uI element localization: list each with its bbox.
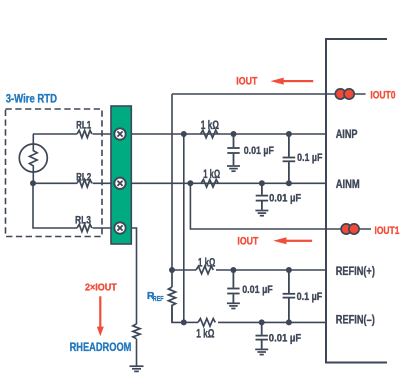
- resistor RL3: [77, 224, 92, 231]
- capacitor C6 0.01uF (REFIN-): [256, 322, 268, 348]
- node RL1/lineB: [181, 131, 187, 137]
- arrow IOUT (lower, pointing left): [273, 237, 312, 244]
- IC U1 outline (ADC): [326, 39, 387, 363]
- wire RREF bottom to REFIN(-) node: [172, 305, 184, 323]
- node REFIN+ cap: [230, 267, 236, 273]
- terminal screw 2: [114, 178, 125, 189]
- node AINM/lineC: [187, 180, 193, 186]
- wire RHEADROOM to ground: [136, 339, 138, 366]
- terminal screw 3: [114, 222, 125, 233]
- svg-text:REFIN(–): REFIN(–): [336, 313, 375, 327]
- svg-text:AINP: AINP: [336, 127, 358, 141]
- svg-text:IOUT: IOUT: [237, 236, 258, 248]
- capacitor C4 0.01uF (REFIN+): [227, 270, 239, 303]
- node REFIN- cap: [259, 319, 265, 325]
- resistor 1k AINM: [201, 180, 218, 188]
- ground (C4): [227, 303, 240, 308]
- capacitor C1 0.01uF (AINP): [227, 134, 239, 165]
- svg-text:1 kΩ: 1 kΩ: [203, 169, 220, 181]
- capacitor C3 0.01uF (AINM): [256, 183, 268, 209]
- svg-text:1 kΩ: 1 kΩ: [201, 120, 219, 132]
- terminal screw 1: [114, 128, 125, 139]
- svg-text:1 kΩ: 1 kΩ: [196, 329, 214, 341]
- RTD sensor element: [19, 134, 47, 183]
- node REFIN- 0.1uF: [286, 319, 292, 325]
- svg-text:RL3: RL3: [75, 215, 91, 227]
- resistor RL1: [77, 130, 92, 137]
- svg-text:2×IOUT: 2×IOUT: [85, 282, 117, 294]
- wire IOUT0 pin stub: [326, 93, 366, 95]
- current source IOUT0 (double circles): [335, 89, 354, 99]
- svg-text:REF: REF: [153, 296, 164, 303]
- arrow 2xIOUT (pointing down): [97, 296, 104, 336]
- wire RL3 row to terminal: [93, 227, 132, 229]
- node AINM cap: [259, 180, 265, 186]
- resistor 1k REFIN-: [198, 319, 215, 327]
- wire RTD node down to RL3 row: [33, 183, 77, 228]
- ground (RHEADROOM): [130, 366, 144, 371]
- node REFIN+ / RREF top: [169, 267, 175, 273]
- node REFIN- / lineB: [181, 319, 187, 325]
- svg-text:0.01 µF: 0.01 µF: [244, 145, 274, 157]
- capacitor C5 0.1uF (REFIN+ - REFIN-): [283, 270, 296, 322]
- resistor RL2: [77, 180, 92, 187]
- node AINP cap: [231, 131, 237, 137]
- svg-text:0.01 µF: 0.01 µF: [242, 284, 273, 296]
- capacitor C2 0.1uF (AINP-AINM): [283, 134, 296, 183]
- 3-Wire RTD dashed enclosure: [6, 109, 103, 237]
- svg-text:0.01 µF: 0.01 µF: [269, 192, 301, 204]
- wire REFIN(+) row: [172, 269, 196, 271]
- ground (C3): [255, 211, 268, 216]
- arrow IOUT (top, pointing left): [270, 78, 313, 85]
- node AINM 0.1uF: [286, 180, 292, 186]
- terminal block (green): [111, 106, 131, 244]
- wire RL2/AINM row: [33, 182, 77, 184]
- wire IOUT1 pin stub: [326, 228, 371, 230]
- svg-text:REFIN(+): REFIN(+): [336, 264, 375, 278]
- svg-text:0.1 µF: 0.1 µF: [297, 152, 323, 164]
- svg-text:RL1: RL1: [76, 119, 91, 131]
- node AINP 0.1uF: [286, 131, 292, 137]
- svg-text:3-Wire RTD: 3-Wire RTD: [6, 91, 58, 105]
- svg-text:1 kΩ: 1 kΩ: [198, 258, 215, 270]
- wire line B: RL1 node to REFIN(-) node: [183, 134, 185, 322]
- ground (C6): [255, 349, 268, 354]
- svg-text:0.1 µF: 0.1 µF: [297, 291, 323, 303]
- resistor RHEADROOM: [133, 324, 140, 339]
- resistor 1k REFIN+: [196, 266, 213, 274]
- node RTD bottom: [30, 180, 36, 186]
- svg-text:RL2: RL2: [76, 171, 91, 183]
- node REFIN+ 0.1uF: [286, 267, 292, 273]
- node junction dots: [30, 131, 292, 325]
- wire REFIN(-) row: [184, 321, 198, 323]
- wire RL1/AINP row: [33, 133, 77, 135]
- resistor RREF: [168, 270, 175, 322]
- wire RL3 terminal down to RHEADROOM: [131, 228, 136, 324]
- svg-text:IOUT0: IOUT0: [370, 89, 395, 101]
- wire IOUT0 row: [172, 93, 326, 95]
- svg-text:AINM: AINM: [336, 177, 360, 191]
- wire line C: AINM node down to IOUT1 row: [190, 183, 326, 229]
- current source IOUT1 (double circles): [341, 224, 359, 234]
- svg-text:IOUT1: IOUT1: [375, 225, 400, 237]
- wire line A: IOUT0 to REFIN(+)/RREF top: [171, 94, 173, 270]
- resistor 1k AINP: [201, 130, 218, 138]
- ground (C1): [227, 166, 240, 171]
- svg-text:RHEADROOM: RHEADROOM: [70, 340, 132, 354]
- svg-text:0.01 µF: 0.01 µF: [269, 332, 302, 344]
- svg-text:IOUT: IOUT: [236, 75, 257, 87]
